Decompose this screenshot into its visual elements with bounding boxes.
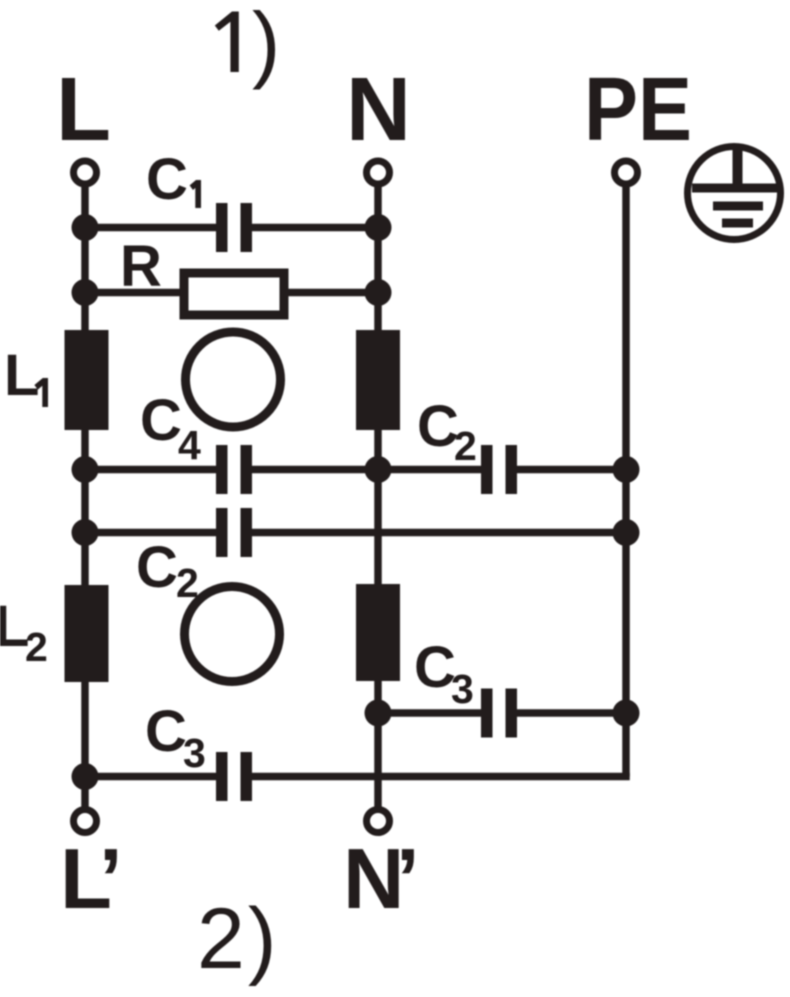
capacitor C3 plates (N to PE) [481, 689, 517, 738]
svg-text:3: 3 [183, 730, 206, 776]
wire row1 C4 to N [251, 466, 378, 474]
junction dot PE/row2 [613, 519, 640, 546]
svg-text:4: 4 [178, 422, 201, 468]
terminal N' [367, 810, 390, 833]
wire PE bus vertical [622, 187, 630, 777]
inductor winding N-side upper body [356, 330, 400, 430]
terminal L' [74, 810, 97, 833]
svg-text:’: ’ [99, 832, 123, 927]
label 1) [215, 12, 239, 73]
junction dot N/row3 [365, 700, 392, 727]
junction dot N/row1 [365, 456, 392, 483]
inductor winding N-side lower body [356, 584, 400, 681]
svg-text:C: C [136, 535, 178, 600]
svg-text:C: C [146, 147, 188, 212]
terminal N [367, 161, 390, 184]
choke core circle upper [186, 332, 281, 427]
junction dot PE/row3 [613, 700, 640, 727]
svg-text:C: C [140, 388, 182, 453]
terminal PE [615, 161, 638, 184]
resistor R body [184, 273, 284, 315]
svg-text:2: 2 [25, 624, 48, 670]
junction dot PE/row1 [613, 456, 640, 483]
capacitor C4 plates [216, 445, 252, 494]
wire row1 L to C4 [85, 466, 217, 474]
wire row4 L' to C3b [85, 773, 217, 781]
svg-text:): ) [252, 0, 280, 91]
capacitor C2b plates (L to PE) [216, 508, 252, 557]
svg-text:’: ’ [396, 832, 420, 927]
svg-text:C: C [145, 699, 187, 764]
wire row1 N to C2 [378, 466, 482, 474]
svg-text:C: C [417, 394, 459, 459]
junction dot L/C1 [72, 214, 99, 241]
wire row3 C3 to PE [516, 709, 626, 717]
junction dot N/C1 [365, 214, 392, 241]
svg-text:2: 2 [176, 560, 199, 606]
wire row4 C3b to PE corner crossing N [251, 773, 630, 781]
protective earth symbol [688, 147, 781, 240]
junction dot L/row1 [72, 456, 99, 483]
wire C1 row right segment [251, 224, 378, 232]
inductor L1 body [65, 330, 109, 430]
wire row2 C2b to PE crossing N [251, 529, 626, 537]
junction dot N/R [365, 279, 392, 306]
capacitor C3b plates (L' to PE) [216, 752, 252, 801]
wire row3 N to C3 [378, 709, 482, 717]
wire N bus vertical [374, 187, 382, 807]
svg-text:2: 2 [454, 423, 477, 469]
junction dot L/row2 [72, 519, 99, 546]
junction dot L'/row4 [72, 763, 99, 790]
terminal L [74, 161, 97, 184]
svg-text:3: 3 [451, 666, 474, 712]
wire R row right segment [282, 289, 378, 297]
svg-text:PE: PE [584, 60, 692, 160]
wire row1 C2 to PE [516, 466, 626, 474]
capacitor C2 plates (N to PE) [481, 445, 517, 494]
wire L bus vertical [81, 187, 89, 807]
svg-text:L: L [4, 343, 39, 408]
svg-text:2): 2) [197, 891, 279, 987]
svg-text:L: L [56, 60, 111, 160]
wire C1 row left segment [85, 224, 217, 232]
wire row2 L to C2b [85, 529, 217, 537]
junction dot L/R [72, 279, 99, 306]
wire R row left segment [85, 289, 186, 297]
choke core circle lower [185, 587, 280, 682]
svg-text:C: C [414, 635, 456, 700]
svg-text:R: R [120, 234, 162, 299]
svg-text:N: N [346, 60, 411, 160]
capacitor C1 plates [216, 203, 252, 252]
inductor L2 body [65, 585, 109, 682]
